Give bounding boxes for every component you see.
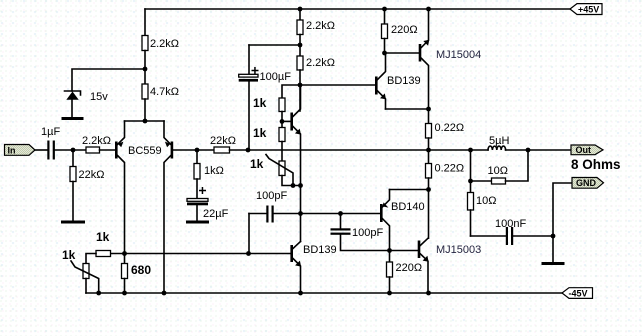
svg-text:0.22Ω: 0.22Ω [435, 163, 465, 175]
node top rail at x300 [298, 7, 303, 12]
node R18 bottom junction [387, 291, 392, 296]
svg-text:22kΩ: 22kΩ [210, 135, 236, 147]
wire -45V bottom rail [86, 292, 562, 294]
port GND tag [572, 178, 604, 189]
node 680 bottom junction [122, 291, 127, 296]
node VBE multiplier base junction [280, 119, 285, 124]
node main amp node at x300 y85 [298, 83, 303, 88]
wire In to C1 [35, 149, 47, 151]
capacitor C4 100pF miller [249, 190, 301, 223]
inductor L1 5uH [488, 135, 509, 150]
svg-text:1k: 1k [253, 126, 267, 140]
svg-text:8 Ohms: 8 Ohms [571, 157, 621, 172]
node emitter/0.22 junction [426, 107, 431, 112]
node output rail at x428 [426, 148, 431, 153]
wire base node to Q3 [282, 120, 290, 122]
capacitor C1 1uF [41, 126, 60, 160]
svg-text:2.2kΩ: 2.2kΩ [82, 135, 111, 147]
wire BC559 common emitter rail [125, 120, 165, 122]
wire Q8 base row [111, 253, 291, 255]
wire Q2 base to feedback node [173, 149, 214, 151]
svg-text:1k: 1k [250, 157, 264, 171]
ground symbol zobel [542, 262, 565, 265]
node trimmer wiper junction [291, 183, 296, 188]
svg-text:BD139: BD139 [387, 75, 421, 87]
resistor R13 1k horizontal [86, 230, 111, 264]
node top rail at x428 [426, 7, 431, 12]
transistor Q7 MJ15003 [418, 238, 482, 293]
wire C4 left down to BD139-2 base node [248, 214, 250, 254]
trimmer R12 1k [250, 155, 301, 186]
resistor R11 1k [253, 126, 285, 161]
svg-text:2.2kΩ: 2.2kΩ [150, 38, 179, 50]
svg-text:BC559: BC559 [128, 145, 162, 157]
resistor R7 22k input shunt [70, 150, 104, 221]
node output rail inductor right junction [526, 148, 531, 153]
wire BD140 base row [301, 213, 381, 215]
svg-text:MJ15003: MJ15003 [436, 244, 481, 256]
node R3/R4 top junction [298, 43, 303, 48]
wire from top rail corner down to R1 [144, 9, 146, 36]
svg-text:+45V: +45V [578, 5, 599, 15]
svg-text:10Ω: 10Ω [488, 165, 508, 177]
ground for R7 [61, 221, 85, 224]
node emitter line junction y185 [298, 183, 303, 188]
port In tag [5, 145, 36, 156]
node feedback divider junction [195, 148, 200, 153]
node lower driver emitter junction [426, 187, 431, 192]
wire base node to MJ15004 [385, 52, 419, 54]
node x300 y213 junction [298, 211, 303, 216]
svg-text:1kΩ: 1kΩ [204, 165, 224, 177]
label 8 Ohms [571, 157, 621, 172]
zener diode D1 15v [65, 91, 109, 118]
resistor R3 2.2k [297, 9, 335, 56]
capacitor C3 22uF electrolytic [187, 187, 229, 221]
node wiper bottom junction [96, 291, 101, 296]
svg-text:In: In [8, 145, 16, 155]
svg-text:1k: 1k [96, 230, 110, 244]
resistor R2 4.7k [142, 84, 179, 99]
wire node to zener [72, 69, 145, 91]
resistor R19 10 parallel [471, 150, 529, 184]
svg-text:22kΩ: 22kΩ [79, 169, 105, 181]
wire top rail corner to 100uF and R3 chain [249, 44, 300, 46]
transistor Q3 VBE multiplier [290, 85, 301, 242]
wire inductor to Out tag [506, 149, 571, 151]
svg-text:220Ω: 220Ω [396, 262, 423, 274]
resistor R9 1k feedback lower [194, 150, 224, 199]
port Out tag [571, 145, 603, 155]
svg-text:GND: GND [576, 178, 597, 188]
node MJ15003 emitter bottom junction [426, 291, 431, 296]
svg-text:5µH: 5µH [489, 135, 509, 147]
svg-text:100pF: 100pF [352, 227, 383, 239]
wire base node to MJ15003 [390, 250, 418, 252]
wire emitter row BD140 [390, 189, 429, 191]
ground for C3 [186, 221, 209, 224]
svg-text:Out: Out [576, 145, 592, 155]
transistor Q5 MJ15004 [419, 9, 482, 109]
svg-text:15v: 15v [90, 91, 108, 103]
node 100pF2 top junction [338, 211, 343, 216]
node output rail inductor left junction [468, 148, 473, 153]
resistor R1 2.2k top left [142, 36, 179, 51]
node top rail at x384 [382, 7, 387, 12]
svg-text:100µF: 100µF [260, 71, 292, 83]
wire +45V top rail [145, 8, 570, 10]
wire R1 to node below [144, 51, 146, 85]
resistor R20 10 zobel [468, 150, 497, 236]
svg-text:100pF: 100pF [256, 190, 287, 202]
wire GND tag to ground [553, 183, 572, 263]
svg-text:BD140: BD140 [391, 201, 425, 213]
transistor Q2 BC559 right [164, 121, 173, 293]
transistor Q8 BD139 lower [290, 242, 336, 294]
port +45V tag [570, 4, 602, 15]
node input/R7 junction [71, 148, 76, 153]
resistor R4 2.2k [297, 56, 335, 111]
ground for zener [62, 117, 84, 120]
node Q1 collector junction [122, 251, 127, 256]
svg-text:1µF: 1µF [41, 126, 60, 138]
svg-text:1k: 1k [62, 248, 76, 262]
wire R10 to base node [281, 112, 283, 128]
wire C1 to R6 [55, 149, 86, 151]
capacitor C5 100pF [331, 214, 390, 251]
resistor R17 0.22 lower [426, 163, 465, 190]
resistor R15 680 [122, 254, 152, 294]
port -45V tag [562, 288, 593, 299]
wire R2 down to BC559 emitter rail [144, 99, 146, 121]
transistor Q4 BD139 driver [375, 53, 421, 109]
resistor R6 2.2k input series [82, 135, 111, 153]
svg-text:10Ω: 10Ω [476, 195, 496, 207]
wire BD139 emitter to 0.22 node [386, 108, 429, 110]
svg-text:4.7kΩ: 4.7kΩ [150, 86, 179, 98]
svg-text:2.2kΩ: 2.2kΩ [306, 20, 335, 32]
transistor Q1 BC559 left [115, 121, 162, 254]
resistor R10 1k [253, 96, 285, 112]
svg-text:100nF: 100nF [495, 218, 526, 230]
node ground wire junction [551, 234, 556, 239]
transistor Q6 BD140 [380, 190, 425, 251]
svg-text:-45V: -45V [569, 289, 588, 299]
capacitor C6 100nF [471, 218, 554, 245]
node R1/R2/zener junction [143, 67, 148, 72]
svg-text:0.22Ω: 0.22Ω [435, 122, 465, 134]
resistor R8 22k feedback [210, 135, 236, 153]
svg-text:BD139: BD139 [303, 244, 337, 256]
svg-text:22µF: 22µF [203, 208, 229, 220]
svg-text:2.2kΩ: 2.2kΩ [306, 57, 335, 69]
wire node to 1k chain corner [282, 85, 300, 98]
resistor R18 220 lower [387, 251, 423, 294]
capacitor C2 100uF electrolytic [239, 45, 291, 150]
node Q2 collector bottom junction [162, 291, 167, 296]
svg-text:680: 680 [131, 263, 151, 277]
wire R8 to output rail node [230, 149, 249, 151]
resistor R16 0.22 upper [426, 109, 465, 164]
node zobel top junction [468, 179, 473, 184]
svg-text:1k: 1k [253, 96, 267, 110]
wire x428 down to MJ15003 collector [428, 190, 430, 239]
node Q8 emitter bottom junction [298, 291, 303, 296]
wire R6 to Q1 base [100, 149, 116, 151]
trimmer R14 1k [62, 248, 99, 293]
node output rail left junction [246, 148, 251, 153]
node C4 to base junction [246, 251, 251, 256]
resistor R5 220 top [382, 9, 418, 53]
node MJ15003 base junction [387, 248, 392, 253]
node emitter rail junction [143, 119, 148, 124]
svg-text:220Ω: 220Ω [391, 24, 418, 36]
node MJ15004 base junction [382, 51, 387, 56]
wire node to BD139 driver base [300, 84, 375, 86]
svg-text:MJ15004: MJ15004 [436, 49, 481, 61]
wire main output rail [248, 149, 488, 151]
